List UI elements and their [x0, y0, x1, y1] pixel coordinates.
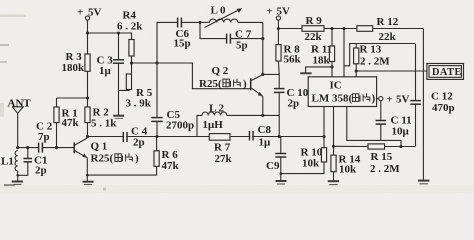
resistor R6	[86, 137, 180, 177]
svg-text:7p: 7p	[38, 131, 50, 143]
node tank right	[261, 37, 264, 40]
wire +5V down to R3 and R2 chain	[87, 20, 89, 107]
capacitor C8	[250, 124, 272, 149]
capacitor C1	[18, 148, 48, 177]
svg-text:5p: 5p	[236, 40, 248, 52]
svg-text:IC: IC	[330, 80, 342, 92]
ground C9	[276, 181, 287, 184]
svg-text:2p: 2p	[288, 98, 300, 110]
node Q1 collector	[86, 135, 89, 138]
wire IC bottom pin to C8 rail	[323, 107, 325, 148]
svg-text:R 12: R 12	[377, 16, 399, 28]
transistor Q1	[74, 138, 139, 165]
svg-text:ANT: ANT	[8, 98, 32, 110]
resistor R13	[354, 44, 391, 77]
wire C6 column up	[157, 22, 177, 63]
capacitor C5	[151, 63, 194, 137]
node R11 ground tap	[330, 65, 333, 68]
svg-text:DATE: DATE	[432, 67, 462, 78]
+5V supply terminal top-left	[77, 7, 102, 21]
resistor R8	[276, 44, 302, 75]
svg-text:): )	[243, 78, 247, 90]
svg-text:LM 358(: LM 358(	[312, 93, 353, 105]
svg-text:C9: C9	[266, 160, 280, 172]
terminal IC +5V	[379, 94, 410, 106]
svg-text:Q 2: Q 2	[212, 65, 229, 77]
svg-text:R 9: R 9	[306, 15, 323, 27]
resistor R3	[62, 51, 91, 74]
node R4/R5	[130, 61, 133, 64]
capacitor C12	[410, 44, 454, 147]
svg-text:L1: L1	[1, 156, 14, 168]
svg-text:R25(: R25(	[91, 153, 114, 165]
svg-text:6 . 2k: 6 . 2k	[117, 21, 143, 33]
svg-text:5 . 1k: 5 . 1k	[91, 118, 117, 130]
svg-text:22k: 22k	[305, 31, 323, 43]
wire R12 net down to ground	[422, 29, 424, 181]
ground C3/R5	[113, 116, 124, 119]
node R1 base tap	[55, 146, 58, 149]
svg-text:C8: C8	[258, 124, 272, 136]
node R10 top	[322, 135, 325, 138]
wire Q2 emitter down	[262, 96, 264, 115]
svg-text:+: +	[267, 6, 273, 18]
svg-text:2p: 2p	[35, 165, 47, 177]
resistor R12	[357, 16, 399, 43]
node C1 tap	[26, 146, 29, 149]
capacitor C6	[174, 18, 201, 50]
node emitter/L2	[261, 114, 264, 117]
resistor R10	[301, 147, 327, 170]
svg-text:27k: 27k	[215, 153, 233, 165]
antenna ANT	[8, 98, 32, 150]
svg-text:R 7: R 7	[214, 142, 231, 154]
resistor R9	[302, 15, 324, 43]
node bias rail	[86, 96, 89, 99]
svg-text:3 . 9k: 3 . 9k	[126, 98, 152, 110]
node R13 bottom / DATE net	[355, 69, 358, 72]
svg-text:L 2: L 2	[209, 103, 224, 115]
wire emitter jog to C10 line	[263, 114, 279, 116]
wire rail to IC pin	[343, 29, 345, 77]
svg-text:R25(: R25(	[199, 78, 222, 90]
ground L1/C1	[12, 182, 23, 185]
wire R10 bottom rail	[281, 162, 324, 174]
resistor R15	[334, 144, 416, 175]
wire tank right side down	[262, 22, 264, 74]
wire C3 branch	[118, 33, 120, 60]
wire +5V to rail and R8	[277, 20, 279, 44]
resistor R4	[117, 10, 143, 57]
wire Q1 emitter to ground	[86, 158, 88, 182]
node C9/C10 tap	[278, 135, 281, 138]
svg-text:1μ: 1μ	[259, 137, 272, 149]
node R14/R15	[332, 145, 335, 148]
wire top rail	[278, 28, 423, 30]
capacitor C9	[266, 137, 286, 181]
node R11 rail tap	[330, 27, 333, 30]
wire collector jog to R8/C10	[263, 74, 279, 88]
resistor R14	[331, 154, 361, 182]
svg-text:5V: 5V	[396, 94, 410, 106]
svg-text:L 0: L 0	[211, 5, 226, 17]
wire R4 bottom to node	[131, 56, 133, 63]
op-amp U1 LM358 box	[308, 77, 376, 107]
svg-text:2 . 2M: 2 . 2M	[370, 163, 400, 175]
svg-text:2700p: 2700p	[166, 120, 194, 132]
svg-text:2p: 2p	[133, 137, 145, 149]
svg-text:15p: 15p	[174, 38, 191, 50]
svg-text:10k: 10k	[339, 164, 357, 176]
svg-text:2 . 2M: 2 . 2M	[360, 56, 390, 68]
resistor R11	[311, 29, 335, 77]
svg-text:+: +	[387, 94, 393, 106]
node rail left	[277, 27, 280, 30]
wire DATE line	[356, 70, 427, 72]
capacitor C2	[36, 121, 74, 153]
svg-text:5V: 5V	[277, 6, 291, 18]
capacitor C10	[274, 87, 309, 137]
node C5/R6	[155, 135, 158, 138]
ground R12 net	[418, 180, 429, 182]
capacitor C3	[97, 55, 125, 116]
svg-text:18k: 18k	[313, 55, 331, 67]
node C6/C5 column	[155, 61, 158, 64]
ground Q1 emitter	[83, 182, 94, 185]
wire IC +5V pin	[377, 98, 379, 100]
+5V supply terminal top-right	[267, 6, 291, 21]
svg-text:R 15: R 15	[371, 151, 393, 163]
inductor L1	[1, 151, 19, 182]
svg-text:1μ: 1μ	[99, 65, 112, 77]
transistor Q2	[199, 65, 263, 96]
svg-text:5V: 5V	[88, 7, 102, 19]
node tank left	[198, 21, 201, 24]
resistor R2	[85, 107, 117, 137]
svg-text:22k: 22k	[379, 31, 397, 43]
svg-text:): )	[135, 153, 139, 165]
ground R11	[300, 67, 332, 73]
svg-text:180k: 180k	[62, 62, 86, 74]
resistor R7	[209, 134, 232, 165]
svg-text:470p: 470p	[432, 102, 455, 114]
svg-text:): )	[372, 93, 376, 105]
svg-text:1μH: 1μH	[203, 119, 224, 131]
capacitor C11	[376, 101, 412, 141]
svg-text:Q 1: Q 1	[91, 141, 108, 153]
wire R1 top rail	[57, 97, 88, 99]
svg-text:47k: 47k	[162, 160, 180, 172]
DATE module box	[427, 64, 464, 80]
wire +5V junction to R4 top	[88, 33, 132, 40]
svg-text:C 12: C 12	[431, 91, 453, 103]
ground R14	[328, 181, 339, 184]
svg-text:+: +	[77, 7, 83, 19]
wire oscillator base rail	[132, 63, 251, 89]
inductor L2	[197, 103, 263, 137]
wire C4/C8 signal rail	[88, 136, 325, 138]
inductor L0 (variable)	[200, 5, 263, 28]
svg-text:10k: 10k	[302, 158, 320, 170]
node IC pin rail tap	[342, 27, 345, 30]
node +5V junction	[86, 31, 89, 34]
capacitor C7	[200, 22, 263, 51]
svg-text:R 13: R 13	[360, 44, 382, 56]
resistor R5	[126, 74, 153, 110]
wire node to R5 and down	[131, 63, 133, 74]
capacitor C4	[123, 126, 147, 149]
wire IC bottom pin to R14	[333, 107, 335, 156]
wire IC bottom pin to C11/R15 net	[347, 107, 401, 147]
node C3 tap	[117, 31, 120, 34]
node Q2 collector	[261, 73, 264, 76]
node R15/C11 junction	[399, 145, 402, 148]
svg-text:10μ: 10μ	[392, 126, 410, 138]
resistor R1	[54, 98, 80, 148]
svg-text:56k: 56k	[284, 54, 302, 66]
svg-text:47k: 47k	[62, 117, 80, 129]
wire R13 top net	[344, 44, 415, 66]
wire Q1 base rail	[18, 147, 38, 149]
